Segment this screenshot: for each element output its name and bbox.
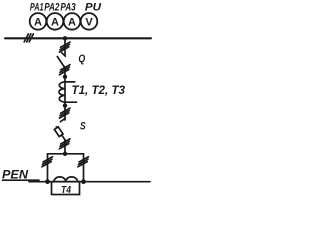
svg-text:T1, T2, T3: T1, T2, T3 bbox=[72, 83, 126, 97]
svg-text:A: A bbox=[68, 16, 76, 28]
svg-text:S: S bbox=[80, 121, 86, 133]
svg-text:A: A bbox=[51, 16, 59, 28]
svg-text:PA3: PA3 bbox=[60, 2, 75, 14]
svg-text:A: A bbox=[34, 16, 42, 28]
svg-text:Q: Q bbox=[78, 53, 85, 65]
svg-text:PU: PU bbox=[85, 2, 102, 14]
svg-text:V: V bbox=[85, 16, 93, 28]
svg-text:T4: T4 bbox=[61, 184, 71, 196]
svg-text:PA2: PA2 bbox=[44, 2, 59, 14]
svg-text:PA1: PA1 bbox=[30, 2, 44, 14]
svg-text:PEN: PEN bbox=[2, 168, 28, 182]
